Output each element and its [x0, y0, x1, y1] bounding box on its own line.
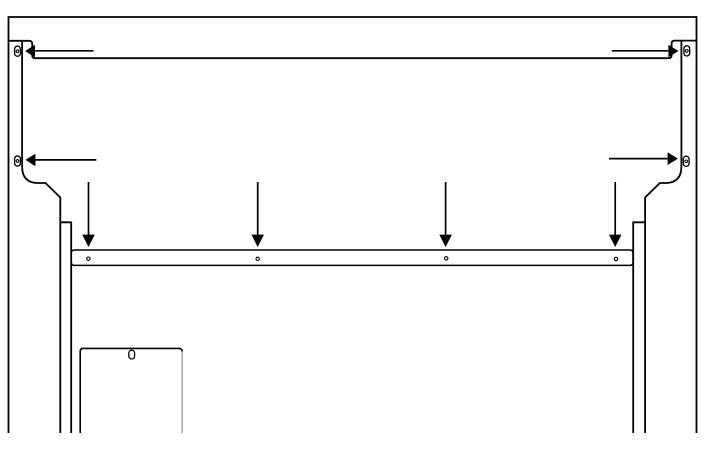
left side rail inner edge curving into left inner wall: [22, 41, 60, 433]
arrow mid-right pointing right at mid-right screw slot: [609, 152, 678, 165]
top panel lower edge with notched ends: [9, 41, 697, 59]
crossbar screw hole 1: [87, 257, 90, 260]
screw slot mid-left: [15, 156, 21, 166]
screw slot mid-right: [683, 156, 689, 166]
mounting crossbar: [71, 250, 633, 265]
arrow mid-left pointing left at mid-left screw slot: [25, 154, 96, 167]
arrow top-left pointing left at top-left screw slot: [25, 45, 93, 58]
crossbar screw hole 2: [256, 257, 259, 260]
lower access panel right edge (light): [181, 351, 183, 433]
crossbar screw hole 3: [445, 257, 448, 260]
arrow top-right pointing right at top-right screw slot: [612, 45, 679, 58]
crossbar screw hole 4: [614, 257, 617, 260]
down arrow 1 at crossbar hole 1: [82, 182, 95, 247]
left inner wall step line: [60, 222, 71, 433]
down arrow 4 at crossbar hole 4: [609, 182, 622, 247]
down arrow 3 at crossbar hole 3: [439, 182, 452, 247]
access panel keyhole slot: [129, 350, 135, 359]
right side rail inner edge curving into right inner wall: [645, 41, 681, 433]
right inner wall step line: [633, 222, 645, 433]
down arrow 2 at crossbar hole 2: [251, 182, 264, 247]
lower access panel outline: [80, 348, 182, 433]
screw slot top-right: [684, 46, 690, 56]
screw slot top-left: [15, 46, 21, 56]
